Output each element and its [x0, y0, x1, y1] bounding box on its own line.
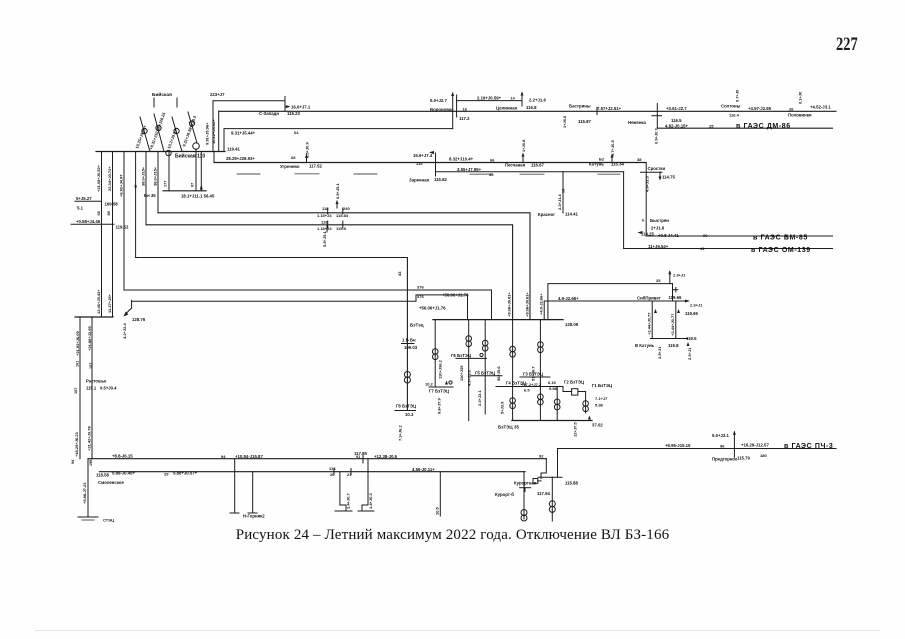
svg-text:115.1: 115.1 [86, 386, 97, 391]
svg-text:64: 64 [294, 130, 299, 135]
svg-text:Б2: Б2 [599, 157, 605, 162]
svg-text:4.82-J0.15+: 4.82-J0.15+ [665, 123, 689, 128]
svg-text:+12.38-J0.5: +12.38-J0.5 [374, 454, 398, 459]
svg-text:119.5: 119.5 [686, 336, 697, 341]
transformer above bus x196 [193, 143, 200, 150]
svg-text:10.12+J3.92+: 10.12+J3.92+ [211, 119, 216, 144]
svg-text:+21.92+J6.09: +21.92+J6.09 [75, 331, 80, 356]
svg-text:8.32+J10.4+: 8.32+J10.4+ [449, 157, 474, 162]
svg-text:66: 66 [490, 158, 495, 163]
long loop line 2 [146, 225, 513, 320]
node Курортная [541, 459, 546, 479]
svg-text:+10.84-J15.87: +10.84-J15.87 [235, 454, 263, 459]
svg-text:15.6+J7.4: 15.6+J7.4 [413, 153, 433, 158]
arrow into bus end [124, 312, 129, 317]
svg-text:Целинная: Целинная [496, 106, 518, 111]
branch Вороновка-Целинная [457, 100, 522, 102]
line P 376 [124, 290, 492, 320]
svg-text:Курорт-б: Курорт-б [495, 492, 514, 497]
svg-text:0.9+J0.7: 0.9+J0.7 [654, 128, 659, 144]
svg-text:115.8: 115.8 [336, 226, 347, 231]
feeder в ГАЭС ДМ-86 [657, 127, 832, 129]
svg-text:4.2+J2.4: 4.2+J2.4 [122, 323, 127, 339]
svg-text:В Катунь: В Катунь [635, 343, 655, 348]
svg-text:88: 88 [107, 211, 111, 215]
svg-text:Неженка: Неженка [628, 120, 647, 125]
svg-text:92: 92 [539, 454, 544, 459]
vertical feeder to line1 x158 [157, 152, 159, 213]
arrow into Бн bus [200, 185, 203, 190]
svg-text:116.4: 116.4 [729, 112, 740, 117]
svg-text:Красног: Красног [538, 212, 555, 217]
svg-text:114.75: 114.75 [662, 175, 676, 180]
svg-text:107: 107 [74, 388, 78, 394]
svg-text:5.5+J5.1: 5.5+J5.1 [322, 231, 327, 247]
arrow 1+J0.8 [522, 153, 525, 157]
svg-text:+5.88-J7.23: +5.88-J7.23 [82, 482, 87, 504]
svg-text:Половинки: Половинки [788, 113, 812, 118]
svg-text:1.15+J4: 1.15+J4 [317, 213, 332, 218]
svg-text:115: 115 [416, 161, 423, 166]
svg-text:+2.44+J0.77: +2.44+J0.77 [670, 313, 675, 336]
svg-text:18.1+J11.1 56.45: 18.1+J11.1 56.45 [181, 194, 215, 199]
svg-text:Сростки: Сростки [648, 166, 666, 171]
ground branch СТЭЦ [87, 459, 89, 517]
svg-text:116.67: 116.67 [531, 162, 545, 167]
arrow 1.5+J0.9 [305, 154, 308, 158]
node Заречная junction [435, 153, 437, 176]
svg-text:5+J3.9: 5+J3.9 [500, 401, 505, 414]
tap line y201 [75, 200, 102, 202]
wire x196 down [195, 149, 197, 191]
transformer Г8 [404, 372, 410, 378]
svg-text:117.2: 117.2 [459, 116, 470, 121]
svg-text:38: 38 [637, 157, 642, 162]
generator slant G2 [154, 114, 164, 152]
svg-text:10.2+J9.92+: 10.2+J9.92+ [166, 126, 179, 149]
vertical feeder to line P x124 [123, 152, 125, 291]
svg-text:1.4+J0.7: 1.4+J0.7 [346, 493, 351, 509]
long loop line 1 [158, 213, 530, 320]
mid tie line [496, 386, 563, 388]
svg-text:1 В Бн: 1 В Бн [402, 338, 416, 343]
svg-text:11+J6.54+: 11+J6.54+ [648, 244, 669, 249]
svg-text:240: 240 [343, 206, 350, 211]
generator Г6 [468, 320, 470, 421]
feeder в ГАЭС БМ-85 [646, 235, 832, 237]
transformer on bus x169 [166, 150, 171, 155]
svg-text:115.79: 115.79 [737, 455, 751, 460]
branch Красногорское [562, 172, 564, 213]
svg-text:180: 180 [760, 453, 767, 458]
svg-text:Заречная: Заречная [409, 178, 429, 183]
line C 9.31+J5.44 [223, 129, 225, 152]
generator slant G4 [188, 112, 197, 143]
svg-text:161: 161 [76, 361, 80, 367]
svg-text:94: 94 [71, 459, 75, 464]
faint scan edge [35, 630, 880, 632]
svg-text:117.94: 117.94 [537, 491, 551, 496]
svg-text:114.41: 114.41 [565, 211, 579, 216]
long loop line 3 [136, 258, 408, 411]
branch x252 [252, 472, 254, 513]
svg-text:118: 118 [329, 466, 336, 471]
transformer on Смоленское branch x524 [523, 472, 525, 519]
node СибПривет [672, 284, 674, 301]
svg-text:25: 25 [656, 278, 661, 283]
svg-text:6.5: 6.5 [524, 388, 530, 393]
faint dashed remnant line [237, 173, 620, 175]
svg-text:118.58: 118.58 [96, 472, 110, 477]
svg-text:116.5: 116.5 [671, 118, 682, 123]
svg-text:119.41: 119.41 [227, 147, 241, 152]
svg-text:Г8 БзТЭЦ: Г8 БзТЭЦ [396, 404, 417, 409]
svg-text:5.1: 5.1 [77, 206, 84, 211]
svg-text:2.3+J1: 2.3+J1 [690, 303, 703, 308]
svg-text:СибПривет: СибПривет [637, 296, 661, 301]
svg-text:169.58: 169.58 [105, 202, 119, 207]
branch x368 [367, 459, 369, 505]
svg-text:16.6+J7.1: 16.6+J7.1 [291, 105, 311, 110]
line B Целинная trunk [218, 111, 220, 151]
svg-text:38.0+J15+: 38.0+J15+ [141, 166, 146, 186]
vertical left 1 [79, 317, 81, 459]
svg-text:Г6 БзТЭЦ: Г6 БзТЭЦ [451, 353, 472, 358]
svg-text:+21.86+J3.95: +21.86+J3.95 [87, 326, 92, 351]
svg-text:117.52: 117.52 [309, 163, 323, 168]
svg-text:0.5+J5.1: 0.5+J5.1 [335, 183, 340, 199]
branch Н-Горняк [234, 459, 236, 513]
generator slant G1 [140, 117, 150, 152]
tie to СибПривет upper [548, 284, 673, 320]
arrow 0.5+J5.1 [336, 200, 339, 204]
svg-text:376: 376 [417, 285, 424, 290]
svg-text:+4.52-J3.1: +4.52-J3.1 [810, 105, 831, 110]
svg-text:9.8+J7.9: 9.8+J7.9 [437, 398, 442, 414]
generator Г5 [484, 320, 486, 414]
svg-text:+21.42+J3.78: +21.42+J3.78 [87, 426, 92, 451]
svg-text:4.9+J3.5: 4.9+J3.5 [645, 176, 650, 192]
vertical feeder v1 x101.5 [101, 152, 103, 318]
svg-text:3.55+J7.95+: 3.55+J7.95+ [457, 167, 482, 172]
svg-text:9.31+J5.44+: 9.31+J5.44+ [231, 131, 256, 136]
svg-text:96: 96 [720, 443, 725, 448]
svg-text:10.3: 10.3 [405, 412, 414, 417]
svg-text:+6.92+J4.97: +6.92+J4.97 [119, 174, 124, 197]
svg-text:119.8: 119.8 [668, 343, 679, 348]
svg-text:07: 07 [191, 183, 195, 187]
svg-text:+9.08+J9.81+: +9.08+J9.81+ [525, 292, 530, 317]
page number [836, 34, 862, 56]
tap line y223.5 [71, 223, 114, 225]
svg-text:Катунь: Катунь [589, 162, 604, 167]
line 3.55+J7.95 Заречная [436, 171, 624, 173]
svg-text:118: 118 [322, 206, 329, 211]
svg-text:в ГАЭС ОМ-139: в ГАЭС ОМ-139 [751, 247, 811, 254]
box В Катунь [651, 301, 653, 339]
svg-text:5.98: 5.98 [595, 403, 604, 408]
feeder в ГАЭС ОМ-139 [623, 172, 625, 249]
svg-text:115.88: 115.88 [565, 480, 579, 485]
svg-text:22.34+J0.72+: 22.34+J0.72+ [107, 166, 112, 191]
svg-text:119.66: 119.66 [669, 295, 683, 300]
svg-text:1+J0.6: 1+J0.6 [562, 115, 567, 128]
svg-text:9.91+J5.96+: 9.91+J5.96+ [205, 122, 210, 145]
svg-text:16: 16 [562, 189, 566, 193]
svg-text:110+J35: 110+J35 [459, 365, 464, 381]
vertical feeder to line2 x146 [145, 152, 147, 225]
svg-text:68: 68 [97, 211, 101, 215]
line A С-Западная [212, 101, 214, 152]
svg-text:Бастрины: Бастрины [569, 104, 591, 109]
svg-text:12+J7.5: 12+J7.5 [573, 422, 578, 437]
svg-text:5.0+J3.1: 5.0+J3.1 [712, 433, 729, 438]
svg-text:7.57+J2.51+: 7.57+J2.51+ [597, 106, 622, 111]
svg-text:+8.8-J6.15: +8.8-J6.15 [112, 454, 133, 459]
svg-text:5.0+J2.7: 5.0+J2.7 [430, 98, 447, 103]
bus Бн 35 kV [163, 190, 206, 192]
generator slant G3 [172, 117, 182, 152]
svg-text:Растошье: Растошье [86, 379, 107, 384]
svg-text:2.2+J1.6: 2.2+J1.6 [529, 98, 546, 103]
svg-text:177: 177 [164, 181, 168, 187]
svg-text:5.89-J0.45+: 5.89-J0.45+ [112, 471, 136, 476]
svg-text:Г2 БзТЭЦ: Г2 БзТЭЦ [564, 380, 585, 385]
svg-text:БзТэц: БзТэц [410, 323, 424, 328]
svg-text:198: 198 [89, 460, 93, 466]
junction ticks on line2 [327, 221, 329, 228]
svg-text:Г1 БзТЭЦ: Г1 БзТЭЦ [592, 383, 613, 388]
svg-text:128.76: 128.76 [132, 317, 146, 322]
svg-text:Угренево: Угренево [280, 164, 300, 169]
node Вороновка [452, 93, 454, 129]
generator branch x557 [556, 387, 558, 421]
branch x440 [439, 472, 441, 516]
svg-text:109.03: 109.03 [404, 345, 418, 350]
svg-text:СТЭЦ: СТЭЦ [103, 518, 114, 523]
wire Бийская to Угренево bus [213, 152, 215, 163]
figure caption [0, 527, 905, 544]
svg-text:+2.44+J0.77: +2.44+J0.77 [647, 312, 652, 335]
svg-text:43: 43 [397, 271, 402, 276]
vertical left 2 [91, 317, 93, 459]
bus 315 left [75, 316, 113, 318]
svg-text:110+J36.2: 110+J36.2 [438, 359, 443, 379]
svg-text:+56.06+J1.76: +56.06+J1.76 [419, 305, 446, 310]
svg-text:+3.61-J2.7: +3.61-J2.7 [666, 106, 687, 111]
svg-text:Р: Р [642, 219, 646, 222]
branch x340 [339, 472, 341, 505]
tie to СибПривет lower [544, 301, 687, 320]
svg-text:118: 118 [321, 220, 328, 225]
trunk Угренево-Песчаная-Катунь [214, 162, 646, 164]
bus БзТЭЦ 35 [512, 420, 592, 422]
svg-text:26: 26 [789, 107, 794, 112]
bus БзТЭЦ 110 [433, 319, 563, 321]
svg-text:128.09: 128.09 [565, 322, 579, 327]
svg-text:1.4+J0.3: 1.4+J0.3 [368, 493, 373, 509]
svg-text:Вороновка: Вороновка [430, 107, 454, 112]
svg-text:+0.58+J4.46: +0.58+J4.46 [76, 219, 101, 224]
svg-text:115.34: 115.34 [611, 162, 625, 167]
svg-text:2.5+J1: 2.5+J1 [657, 346, 662, 359]
svg-text:в ГАЭС ДМ-86: в ГАЭС ДМ-86 [736, 123, 791, 130]
svg-text:Быстрян: Быстрян [650, 218, 669, 223]
svg-text:2+J1.6: 2+J1.6 [651, 226, 665, 231]
svg-text:68: 68 [291, 155, 296, 160]
svg-text:0.7+J0: 0.7+J0 [735, 89, 740, 102]
svg-text:5+J5.27: 5+J5.27 [76, 196, 92, 201]
svg-text:2.3+J2.1: 2.3+J2.1 [477, 390, 482, 406]
svg-text:4.9-J2.66+: 4.9-J2.66+ [558, 296, 579, 301]
svg-text:Песчаная: Песчаная [505, 163, 526, 168]
svg-text:94: 94 [221, 454, 226, 459]
svg-text:Смоленское: Смоленское [98, 480, 125, 485]
svg-text:119.52: 119.52 [116, 224, 130, 229]
svg-text:38.0+J15+: 38.0+J15+ [153, 166, 158, 186]
svg-text:1.18+J4: 1.18+J4 [317, 226, 332, 231]
svg-text:2.19+J0.59+: 2.19+J0.59+ [477, 96, 502, 101]
svg-text:4.56-J0.11+: 4.56-J0.11+ [412, 467, 435, 472]
svg-text:5.88+J0.57+: 5.88+J0.57+ [173, 471, 198, 476]
svg-text:в ГАЭС БМ-85: в ГАЭС БМ-85 [753, 234, 808, 241]
svg-text:в ГАЭС ПЧ-3: в ГАЭС ПЧ-3 [784, 443, 833, 450]
svg-text:35: 35 [489, 172, 494, 177]
svg-text:Г5 БзТЭЦ: Г5 БзТЭЦ [475, 370, 496, 375]
svg-text:4.2+J3.3: 4.2+J3.3 [467, 370, 472, 386]
svg-text:29: 29 [164, 472, 169, 477]
svg-text:+9.95-J15.15: +9.95-J15.15 [665, 443, 691, 448]
svg-text:7.1+J7: 7.1+J7 [595, 396, 608, 401]
generator Г3 [539, 320, 541, 421]
svg-text:Н-Горняк2: Н-Горняк2 [243, 513, 265, 518]
svg-text:157: 157 [89, 363, 93, 369]
svg-text:0.1+J0: 0.1+J0 [798, 91, 803, 104]
vertical feeder v2 x112.5 [112, 152, 114, 318]
svg-text:7.3+J6.2: 7.3+J6.2 [398, 425, 403, 441]
svg-text:+4.9-J2.66+: +4.9-J2.66+ [539, 293, 544, 315]
svg-text:1+J0.8: 1+J0.8 [521, 139, 526, 152]
bus Бийская 110 kV [96, 151, 225, 153]
svg-text:Курортная: Курортная [514, 480, 537, 485]
svg-text:+4.57-J2.65: +4.57-J2.65 [748, 106, 772, 111]
svg-text:+9.31+J10.58+J26.24: +9.31+J10.58+J26.24 [148, 111, 166, 150]
svg-text:223+J7: 223+J7 [210, 92, 225, 97]
svg-text:10.5: 10.5 [435, 506, 440, 515]
svg-text:116.82: 116.82 [434, 177, 448, 182]
arrow 5.5+J5.1 [326, 225, 328, 232]
svg-text:2.3+J1.4: 2.3+J1.4 [557, 194, 562, 210]
bottom trunk 2 [99, 471, 525, 473]
svg-text:2.3+J1: 2.3+J1 [687, 347, 692, 360]
svg-text:Солтоны: Солтоны [721, 104, 741, 109]
svg-text:+16.29-J12.57: +16.29-J12.57 [741, 443, 769, 448]
svg-text:Предгорное: Предгорное [712, 456, 738, 461]
svg-text:Г3 БзТЭЦ: Г3 БзТЭЦ [523, 372, 544, 377]
svg-text:БзТЭЦ 35: БзТЭЦ 35 [498, 424, 519, 429]
generator Г7 [434, 320, 436, 387]
svg-text:91: 91 [356, 455, 360, 459]
svg-text:2.3+J1: 2.3+J1 [673, 273, 686, 278]
svg-text:Г7 БзТЭЦ: Г7 БзТЭЦ [429, 389, 450, 394]
svg-text:6.19: 6.19 [548, 380, 557, 385]
bottom trunk 1 [88, 458, 546, 460]
vertical feeder to line3 x135.6 [135, 152, 137, 258]
svg-text:0.5+J0.4: 0.5+J0.4 [100, 386, 117, 391]
line Q 56.06 [132, 295, 468, 301]
svg-text:+9.08+J9.81+: +9.08+J9.81+ [507, 292, 512, 317]
feeder в ГАЭС ПЧ-3 [558, 448, 837, 450]
svg-text:25: 25 [709, 123, 714, 128]
svg-text:12.46+J5.43+: 12.46+J5.43+ [96, 289, 101, 314]
svg-text:18: 18 [463, 108, 467, 112]
svg-text:37.02: 37.02 [592, 422, 603, 427]
generator Г4 (long vertical from line2) [510, 346, 516, 352]
svg-text:0.7+J0.5: 0.7+J0.5 [610, 140, 615, 156]
node Сростки [645, 163, 647, 237]
svg-text:+18.25+J6.23: +18.25+J6.23 [74, 432, 79, 457]
svg-text:+21.08+J0.52+: +21.08+J0.52+ [96, 164, 101, 192]
svg-text:1.5+J0.9: 1.5+J0.9 [305, 142, 310, 158]
svg-text:10.2: 10.2 [425, 382, 434, 387]
svg-text:28.29+J26.93+: 28.29+J26.93+ [226, 156, 255, 161]
svg-text:116.8: 116.8 [526, 105, 537, 110]
small bus Курорт [538, 476, 562, 478]
svg-text:11.27+J5+: 11.27+J5+ [107, 293, 112, 313]
svg-text:Бийская: Бийская [152, 91, 172, 98]
wire bus to lower bus x169 [168, 152, 170, 191]
svg-text:41: 41 [700, 246, 705, 251]
branch Г2 with reactor box [562, 387, 564, 392]
svg-text:56+J5.6: 56+J5.6 [496, 366, 501, 381]
svg-text:115.87: 115.87 [578, 119, 592, 124]
svg-text:115.84: 115.84 [336, 213, 349, 218]
svg-text:119.66: 119.66 [685, 311, 699, 316]
junction ticks on line1 [327, 208, 329, 214]
svg-text:14: 14 [511, 96, 516, 100]
